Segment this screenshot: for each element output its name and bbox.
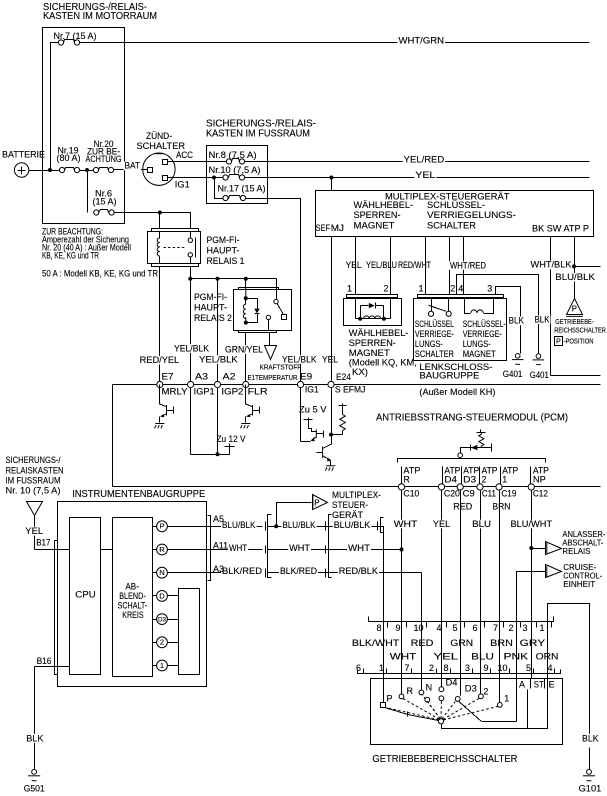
svg-text:WHT: WHT bbox=[348, 543, 371, 553]
ignition switch ACC terminal bbox=[163, 160, 168, 165]
fuse Nr.6 (15 A) bbox=[94, 210, 99, 215]
fuse Nr.8 label bbox=[208, 151, 258, 160]
svg-text:WHT: WHT bbox=[229, 543, 248, 553]
relay 1 dashed actuator link bbox=[164, 247, 187, 249]
svg-text:ZÜND-: ZÜND- bbox=[146, 131, 172, 141]
wire E24 down bbox=[331, 388, 333, 435]
multiplex control unit box bbox=[316, 191, 594, 237]
relay 1 coil bbox=[159, 232, 161, 264]
node solenoid left bbox=[358, 317, 362, 321]
connector row1 tick pin 10 bbox=[426, 622, 428, 628]
label BLK (G101) bbox=[581, 734, 600, 743]
wire lock pin 3 jog to ground bbox=[496, 287, 521, 354]
dimming circuit box bbox=[113, 518, 153, 677]
node Nr.6 branch bbox=[85, 168, 89, 172]
transistor MRLY driver bbox=[159, 385, 161, 405]
indicator lamp N bbox=[157, 567, 168, 578]
connector half (A11) bbox=[265, 546, 267, 554]
wire D3 inner to ST bbox=[458, 701, 481, 721]
contact D3 bbox=[455, 697, 460, 702]
node relay 1 coil feed bbox=[158, 211, 162, 215]
label BLU/BLK (P wire) bbox=[554, 273, 596, 282]
connector row2 tick pin 7 bbox=[411, 669, 413, 674]
svg-text:RELAIS: RELAIS bbox=[562, 546, 590, 556]
svg-text:LUNGS-: LUNGS- bbox=[415, 339, 443, 349]
svg-text:WHT/GRN: WHT/GRN bbox=[399, 35, 445, 45]
svg-text:WHT: WHT bbox=[394, 519, 418, 529]
svg-text:YEL: YEL bbox=[433, 651, 458, 661]
svg-text:SCHALTER: SCHALTER bbox=[415, 349, 454, 359]
connector row1 tick pin 2 bbox=[520, 622, 522, 628]
label GRN/YEL bbox=[224, 345, 264, 354]
svg-text:BAUGRUPPE: BAUGRUPPE bbox=[419, 371, 479, 382]
wire A3 to 12V pullup bbox=[190, 388, 192, 455]
svg-text:GRN/YEL: GRN/YEL bbox=[225, 344, 263, 354]
svg-text:MAGNET: MAGNET bbox=[463, 349, 496, 359]
node relay 2 coil branch bbox=[244, 277, 248, 281]
svg-text:BLU/BLK: BLU/BLK bbox=[334, 520, 371, 530]
PCM bottom connector row bbox=[113, 486, 601, 488]
svg-text:WHT/RED: WHT/RED bbox=[450, 260, 486, 270]
svg-text:BATTERIE: BATTERIE bbox=[2, 150, 45, 161]
relay 2 clamp diode bbox=[246, 298, 258, 300]
svg-text:N: N bbox=[426, 682, 433, 692]
svg-text:BLU/BLK: BLU/BLK bbox=[222, 520, 256, 530]
CPU box bbox=[70, 518, 101, 675]
wire branch down to fuse Nr.17 bbox=[215, 178, 223, 199]
wire A2 to 12V pullup bbox=[217, 388, 219, 455]
wire SW output down bbox=[550, 237, 552, 376]
svg-text:C19: C19 bbox=[501, 489, 516, 499]
pin E24 bbox=[328, 381, 334, 387]
svg-text:SCHLÜSSEL-: SCHLÜSSEL- bbox=[463, 319, 506, 329]
svg-text:BLK: BLK bbox=[26, 733, 44, 744]
svg-text:ACC: ACC bbox=[176, 150, 193, 160]
triangle to starter cutoff relay bbox=[546, 542, 562, 555]
label YEL/BLK (IGP1) bbox=[173, 344, 210, 353]
svg-text:KASTEN IM MOTORRAUM: KASTEN IM MOTORRAUM bbox=[43, 10, 157, 22]
wire fuse Nr.7 to battery node (down leg) bbox=[51, 43, 59, 169]
indicator lamp R bbox=[157, 544, 168, 555]
wire column 2 into switch bbox=[480, 622, 482, 694]
wire fuse Nr.19 to fuse Nr.20 bbox=[80, 170, 94, 172]
key lock magnet stubs bbox=[465, 298, 494, 314]
fuel pump arrow (triangle down) bbox=[265, 346, 277, 360]
relay 2 switch output contact bbox=[266, 315, 270, 319]
svg-text:P: P bbox=[159, 522, 164, 531]
connector half (BLU/BLK mid) bbox=[325, 522, 327, 531]
label WHT/RED bbox=[449, 261, 487, 270]
svg-text:6: 6 bbox=[473, 623, 478, 633]
connector row2 tick pin 5 bbox=[533, 669, 535, 674]
svg-text:BLK/WHT: BLK/WHT bbox=[352, 638, 400, 648]
svg-text:YEL: YEL bbox=[346, 260, 362, 270]
svg-text:WHT/BLK: WHT/BLK bbox=[531, 260, 572, 270]
node A2 pullup bbox=[216, 452, 220, 456]
label YEL (ATP D4) bbox=[432, 520, 451, 529]
svg-text:WHT: WHT bbox=[390, 651, 417, 661]
svg-text:E: E bbox=[549, 679, 555, 689]
pin C12 (ATP NP) bbox=[528, 484, 534, 490]
wire P contact arm bbox=[386, 708, 407, 715]
svg-text:RED/WHT: RED/WHT bbox=[398, 260, 431, 270]
label BLK (left ground) bbox=[508, 316, 526, 325]
svg-text:2: 2 bbox=[160, 638, 164, 647]
connector row2 tick pin 3 bbox=[472, 669, 474, 674]
ATP pullup resistor bbox=[479, 432, 484, 448]
label BLU/BLK seg2 text bbox=[282, 521, 317, 530]
svg-text:C20: C20 bbox=[444, 489, 460, 499]
triangle to cruise control unit bbox=[546, 565, 562, 578]
divider A/ST bbox=[530, 679, 532, 689]
svg-text:(15 A): (15 A) bbox=[93, 196, 117, 206]
key lock switch blade bbox=[429, 305, 446, 311]
svg-text:EINHEIT: EINHEIT bbox=[563, 579, 595, 589]
wire IG1 to footwell fuse box bbox=[168, 177, 223, 179]
wire column D4 into switch bbox=[441, 622, 443, 687]
svg-text:R: R bbox=[407, 686, 414, 696]
svg-text:BRN: BRN bbox=[490, 638, 513, 648]
svg-text:P: P bbox=[314, 498, 319, 507]
svg-text:YEL/BLU: YEL/BLU bbox=[366, 260, 397, 270]
label YEL (SEFMJ wire) bbox=[321, 355, 339, 364]
svg-text:PGM-FI-: PGM-FI- bbox=[194, 292, 227, 303]
svg-text:G501: G501 bbox=[24, 783, 45, 794]
svg-text:10: 10 bbox=[414, 623, 424, 633]
svg-text:PGM-FI-: PGM-FI- bbox=[207, 235, 240, 246]
Zu 12 V terminal bbox=[229, 447, 231, 455]
ground G401 left bbox=[515, 354, 520, 359]
ATP 5V terminal bbox=[477, 432, 486, 434]
svg-text:1: 1 bbox=[502, 474, 507, 484]
svg-text:Nr.10 (7,5 A): Nr.10 (7,5 A) bbox=[209, 165, 261, 175]
label B17 bbox=[35, 538, 51, 547]
fuse Nr.17 (15 A) bbox=[223, 195, 228, 200]
triangle to multiplex (P) bbox=[313, 495, 328, 510]
connector row1 tick pin 5 bbox=[464, 622, 466, 628]
relay PGM-FI-HAUPT-RELAIS 2 top connector bar bbox=[239, 288, 279, 290]
indicator sub-box bbox=[179, 589, 200, 675]
label WHT (ATP R) bbox=[393, 520, 419, 529]
ground G501 bbox=[32, 769, 37, 774]
svg-text:A3: A3 bbox=[195, 371, 208, 381]
svg-text:A3: A3 bbox=[213, 564, 224, 574]
wire column P into switch bbox=[383, 622, 385, 703]
ATP pullup diode bbox=[470, 445, 472, 451]
svg-text:D: D bbox=[159, 591, 165, 600]
wire N lamp left stub bbox=[153, 572, 157, 574]
wire fuse Nr.6 to relay 1 feed bbox=[115, 213, 191, 229]
pin C19 (ATP 1) bbox=[496, 484, 502, 490]
label BLK (G501) bbox=[25, 734, 44, 743]
wire P lamp left stub bbox=[153, 526, 157, 528]
connector row1 tick pin 1 bbox=[551, 622, 553, 628]
svg-text:G401: G401 bbox=[503, 369, 523, 379]
svg-text:1: 1 bbox=[347, 283, 352, 293]
pin FLR/E1 bbox=[243, 381, 249, 387]
svg-text:3: 3 bbox=[465, 663, 470, 673]
svg-text:VERRIEGE-: VERRIEGE- bbox=[463, 329, 502, 339]
connector row1 tick pin 7 bbox=[503, 622, 505, 628]
pin A3 bbox=[188, 381, 194, 387]
label WHT seg1 bbox=[228, 544, 248, 553]
wire 1 lamp to sub-box bbox=[168, 665, 179, 667]
svg-text:50 A : Modell KB, KE, KG und T: 50 A : Modell KB, KE, KG und TR bbox=[42, 269, 158, 279]
svg-text:IGP2: IGP2 bbox=[221, 386, 243, 396]
wire YEL/RED from fuse Nr.8 to right edge bbox=[245, 161, 590, 163]
relay 2 switch common contact bbox=[274, 299, 278, 303]
svg-text:C10: C10 bbox=[403, 489, 419, 499]
wire P lamp to connector (BLU/BLK row) bbox=[168, 526, 263, 528]
wire D lamp to sub-box bbox=[168, 595, 179, 597]
solenoid stubs bbox=[355, 298, 357, 319]
contact P (square) bbox=[381, 703, 386, 708]
ignition switch BAT terminal bbox=[148, 168, 153, 173]
svg-text:MAGNET: MAGNET bbox=[354, 220, 395, 231]
connector row2 tick pin 1 bbox=[386, 669, 388, 674]
pin E9 bbox=[297, 381, 303, 387]
svg-text:YEL/BLK: YEL/BLK bbox=[282, 354, 317, 364]
wire node down to relay 1 coil bbox=[159, 213, 161, 229]
wire WHT seg2 bbox=[268, 549, 402, 551]
contact 2 bbox=[479, 694, 484, 699]
svg-text:REICHSSCHALTER: REICHSSCHALTER bbox=[554, 328, 606, 335]
wire resistor to E24 node bbox=[332, 434, 343, 436]
svg-text:BLU/BLK: BLU/BLK bbox=[283, 520, 316, 530]
svg-text:RELAIS 2: RELAIS 2 bbox=[194, 313, 232, 324]
node relay 2 coil bottom junction bbox=[244, 321, 248, 325]
transistor SEFMJ driver bbox=[331, 435, 333, 445]
svg-text:KASTEN IM FUSSRAUM: KASTEN IM FUSSRAUM bbox=[206, 128, 310, 140]
wire 2 lamp to sub-box bbox=[168, 642, 179, 644]
label P-POSITION with box bbox=[555, 337, 563, 346]
svg-text:N: N bbox=[159, 568, 164, 577]
svg-text:BLK: BLK bbox=[535, 315, 550, 325]
svg-text:YEL: YEL bbox=[433, 519, 450, 529]
fuse Nr.17 label bbox=[217, 184, 267, 193]
wire node to fuse Nr.6 bbox=[87, 171, 89, 213]
label BLU/BLK seg3 text bbox=[333, 521, 372, 530]
wire ATP R column bbox=[401, 491, 403, 622]
indicator lamp P bbox=[157, 521, 168, 532]
fuse Nr.8 (7,5 A) bbox=[226, 159, 231, 164]
range switch connector row 1 bbox=[369, 617, 554, 622]
indicator lamp 1 bbox=[157, 660, 168, 671]
key lock switch contact 2 bbox=[446, 311, 451, 316]
wire fuse Nr.17 to PCM IG1 (E9) bbox=[246, 199, 301, 385]
node E24 pullup bbox=[329, 433, 333, 437]
wire YEL from fuse Nr.10 to right edge bbox=[245, 177, 590, 179]
wire D3 lamp left stub bbox=[153, 619, 157, 621]
svg-text:HAUPT-: HAUPT- bbox=[207, 246, 240, 257]
wire R lamp to connector (WHT row) bbox=[168, 549, 263, 551]
connector row1 tick pin 3 bbox=[536, 622, 538, 628]
wire pivot common to A and E bbox=[442, 679, 548, 729]
svg-text:FLR: FLR bbox=[248, 387, 269, 397]
relay 1 body bbox=[148, 232, 201, 264]
wire BLU/BLK seg2 bbox=[268, 526, 381, 528]
wire to PCM pin A3 (IGP1) bbox=[190, 279, 192, 385]
svg-text:C9: C9 bbox=[463, 489, 475, 499]
pin E7 bbox=[157, 381, 163, 387]
P position triangle bbox=[567, 299, 583, 315]
connector half (A3) bbox=[265, 569, 267, 578]
svg-text:ACHTUNG: ACHTUNG bbox=[86, 154, 122, 164]
instrument cluster box bbox=[58, 502, 207, 687]
svg-text:(Außer Modell KH): (Außer Modell KH) bbox=[419, 387, 495, 398]
node YEL feed to multiplex unit bbox=[329, 176, 333, 180]
svg-text:R: R bbox=[403, 474, 410, 484]
connector row2 tick pin 4 bbox=[554, 669, 556, 674]
svg-text:P: P bbox=[556, 337, 561, 346]
svg-text:RED: RED bbox=[411, 638, 434, 648]
svg-text:BLU/WHT: BLU/WHT bbox=[511, 519, 553, 529]
pin C9 (ATP D3) bbox=[457, 484, 463, 490]
svg-text:YEL/RED: YEL/RED bbox=[404, 154, 445, 164]
wire stub into multiplex box top bbox=[331, 178, 333, 191]
node battery feed / Nr.7 branch bbox=[48, 168, 52, 172]
relay 1 switch blade bbox=[195, 238, 197, 258]
label WHT seg3 text bbox=[347, 544, 371, 553]
wire column N into switch bbox=[421, 622, 423, 690]
key lock switch stub 1 bbox=[431, 298, 433, 312]
connector half (WHT mid) bbox=[325, 546, 327, 554]
ground G101 bbox=[587, 769, 592, 774]
steering lock body bbox=[414, 299, 507, 361]
svg-text:RED: RED bbox=[453, 501, 472, 511]
svg-text:KRAFTSTOFF: KRAFTSTOFF bbox=[260, 365, 302, 372]
node relay1 out / IGP1 bbox=[188, 277, 192, 281]
fuse Nr.7 (15 A) bbox=[58, 40, 63, 45]
svg-text:5: 5 bbox=[526, 663, 531, 673]
svg-text:Nr.7 (15 A): Nr.7 (15 A) bbox=[54, 31, 97, 41]
divider ST/E bbox=[544, 679, 546, 689]
wire D lamp left stub bbox=[153, 595, 157, 597]
svg-text:RED/BLK: RED/BLK bbox=[339, 566, 378, 576]
contact N inner bbox=[425, 697, 430, 702]
svg-text:2: 2 bbox=[482, 474, 487, 484]
in-line connector bracket 2 bbox=[329, 515, 332, 578]
svg-text:1: 1 bbox=[160, 661, 164, 670]
relay 1 switch stubs bbox=[190, 232, 192, 239]
svg-text:WHT: WHT bbox=[289, 543, 310, 553]
battery symbol (circle with plus) bbox=[14, 163, 28, 177]
connector row1 tick pin 6 bbox=[484, 622, 486, 628]
pin C11 (ATP 2) bbox=[477, 484, 483, 490]
svg-text:YEL: YEL bbox=[322, 354, 338, 364]
wire relay 2 coil to PCM pin FLR bbox=[245, 333, 247, 385]
svg-text:YEL: YEL bbox=[25, 526, 43, 537]
svg-text:PNK: PNK bbox=[504, 651, 529, 661]
svg-text:KB, KE, KG und TR: KB, KE, KG und TR bbox=[42, 251, 99, 261]
svg-text:7: 7 bbox=[405, 663, 410, 673]
wire cruise control branch bbox=[517, 572, 546, 722]
PCM ATP group bracket bbox=[398, 459, 546, 463]
node IGP2 branch bbox=[216, 277, 220, 281]
fuse/relay box (engine compartment) outline bbox=[43, 28, 125, 224]
svg-text:2: 2 bbox=[483, 686, 488, 696]
svg-text:BLU: BLU bbox=[472, 519, 491, 529]
node solenoid right bbox=[382, 317, 386, 321]
svg-text:E24: E24 bbox=[336, 372, 351, 382]
svg-text:RED/YEL: RED/YEL bbox=[140, 355, 180, 365]
wire key-lock pin 1 bbox=[425, 237, 427, 295]
fuse Nr.20 bbox=[93, 167, 98, 172]
svg-text:CPU: CPU bbox=[75, 589, 96, 600]
svg-text:4: 4 bbox=[437, 623, 442, 633]
wire key-lock pin 2 bbox=[449, 237, 451, 295]
ground G401 right bbox=[536, 354, 541, 359]
solenoid bottom bus bbox=[356, 318, 391, 320]
cluster connector bracket (left) bbox=[55, 541, 58, 675]
connector row1 tick pin 4 bbox=[446, 622, 448, 628]
ATP pullup node circle bbox=[458, 453, 463, 458]
pin C20 (ATP D4) bbox=[438, 484, 444, 490]
node IG1 branch to Nr.17 bbox=[212, 176, 216, 180]
relay 2 coil bbox=[243, 290, 245, 323]
svg-text:-POSITION: -POSITION bbox=[564, 339, 594, 346]
fuse Nr.19 (80 A) bbox=[59, 167, 64, 172]
svg-text:RELAIS 1: RELAIS 1 bbox=[207, 256, 245, 267]
wire 5V to transistor collector bbox=[309, 420, 317, 432]
ATP pin ticks bbox=[402, 467, 531, 488]
svg-text:(80 A): (80 A) bbox=[57, 153, 81, 163]
svg-text:IG1: IG1 bbox=[305, 385, 319, 395]
svg-text:D3: D3 bbox=[465, 683, 477, 693]
wire fuse triangle to B17 bbox=[34, 516, 36, 550]
wire P output down to P-position switch bbox=[574, 237, 576, 299]
wire R lamp left stub bbox=[153, 549, 157, 551]
label BLU (ATP 2) bbox=[471, 520, 492, 529]
label YEL (ignition feed) bbox=[414, 171, 436, 180]
svg-text:G101: G101 bbox=[579, 783, 602, 794]
wire CPU to dimming circuit bbox=[101, 549, 113, 551]
label WHT seg2 text bbox=[288, 544, 311, 553]
svg-text:SICHERUNGS-/: SICHERUNGS-/ bbox=[6, 455, 61, 465]
rotor pivot bbox=[438, 719, 443, 724]
svg-text:ST: ST bbox=[534, 679, 544, 689]
solenoid clamp diode loop bbox=[360, 306, 362, 319]
svg-text:Zu 5 V: Zu 5 V bbox=[299, 405, 327, 415]
relay PGM-FI-HAUPT-RELAIS 1 top connector bar bbox=[152, 229, 199, 232]
svg-text:D4: D4 bbox=[446, 677, 458, 687]
label BLK/RED seg2 text bbox=[279, 567, 318, 576]
svg-text:A2: A2 bbox=[223, 371, 236, 381]
wire RED/BLK seg2 bbox=[268, 572, 422, 574]
key lock switch stub 2 bbox=[448, 298, 450, 312]
pin C10 (ATP R) bbox=[398, 484, 404, 490]
svg-text:8: 8 bbox=[444, 663, 449, 673]
label YEL/RED bbox=[403, 155, 446, 164]
svg-text:8: 8 bbox=[377, 623, 382, 633]
relay 2 bottom connector bar bbox=[239, 331, 277, 333]
fuse Nr.10 label bbox=[208, 166, 262, 175]
svg-text:9: 9 bbox=[396, 623, 401, 633]
wire pullup bus bbox=[191, 454, 230, 456]
svg-text:E1TEMPERATUR: E1TEMPERATUR bbox=[248, 375, 298, 382]
wire RED/BLK down to range switch 10 bbox=[421, 573, 423, 622]
wire fuse Nr.20 to ignition switch BAT bbox=[114, 169, 148, 171]
wire multiplex P input bbox=[277, 503, 312, 527]
svg-text:VERRIEGE-: VERRIEGE- bbox=[415, 329, 454, 339]
svg-text:S EFMJ: S EFMJ bbox=[335, 385, 366, 395]
svg-text:SCHLÜSSEL: SCHLÜSSEL bbox=[415, 319, 454, 329]
svg-text:BLK: BLK bbox=[582, 733, 599, 744]
svg-text:MRLY: MRLY bbox=[162, 386, 188, 396]
cluster connector bracket (right) bbox=[208, 516, 211, 581]
svg-text:BLU/BLK: BLU/BLK bbox=[555, 272, 595, 282]
svg-text:LUNGS-: LUNGS- bbox=[463, 339, 491, 349]
